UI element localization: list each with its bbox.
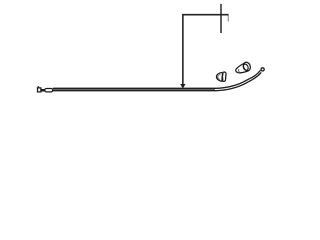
- cable shaft inner shading: [53, 89, 215, 91]
- bracket corner (horizontal + left vertical leader): [183, 15, 229, 85]
- ferrule piece 2 rim inner wall: [242, 63, 249, 71]
- arrowhead: [180, 84, 186, 88]
- ferrule piece 2 body inner shading: [238, 69, 241, 72]
- ferrule piece 2 rim: [242, 61, 252, 72]
- ferrule piece 1 rim inner wall: [222, 73, 225, 81]
- ferrule piece 2 body: [236, 64, 248, 73]
- cable shaft bottom edge: [53, 72, 261, 90]
- connector stub: [41, 89, 44, 92]
- end square fitting tab: [38, 86, 40, 87]
- ferrule piece 1 body: [217, 72, 223, 81]
- ferrule piece 1 rim: [222, 72, 226, 82]
- ferrule piece 1 body inner shading: [218, 75, 221, 80]
- ball tip: [261, 68, 264, 71]
- sleeve: [45, 89, 53, 92]
- end square fitting: [38, 88, 41, 92]
- tick mark crossing bracket: [220, 4, 222, 33]
- cable shaft top edge: [53, 70, 261, 88]
- bracket right vertical drop: [227, 15, 229, 21]
